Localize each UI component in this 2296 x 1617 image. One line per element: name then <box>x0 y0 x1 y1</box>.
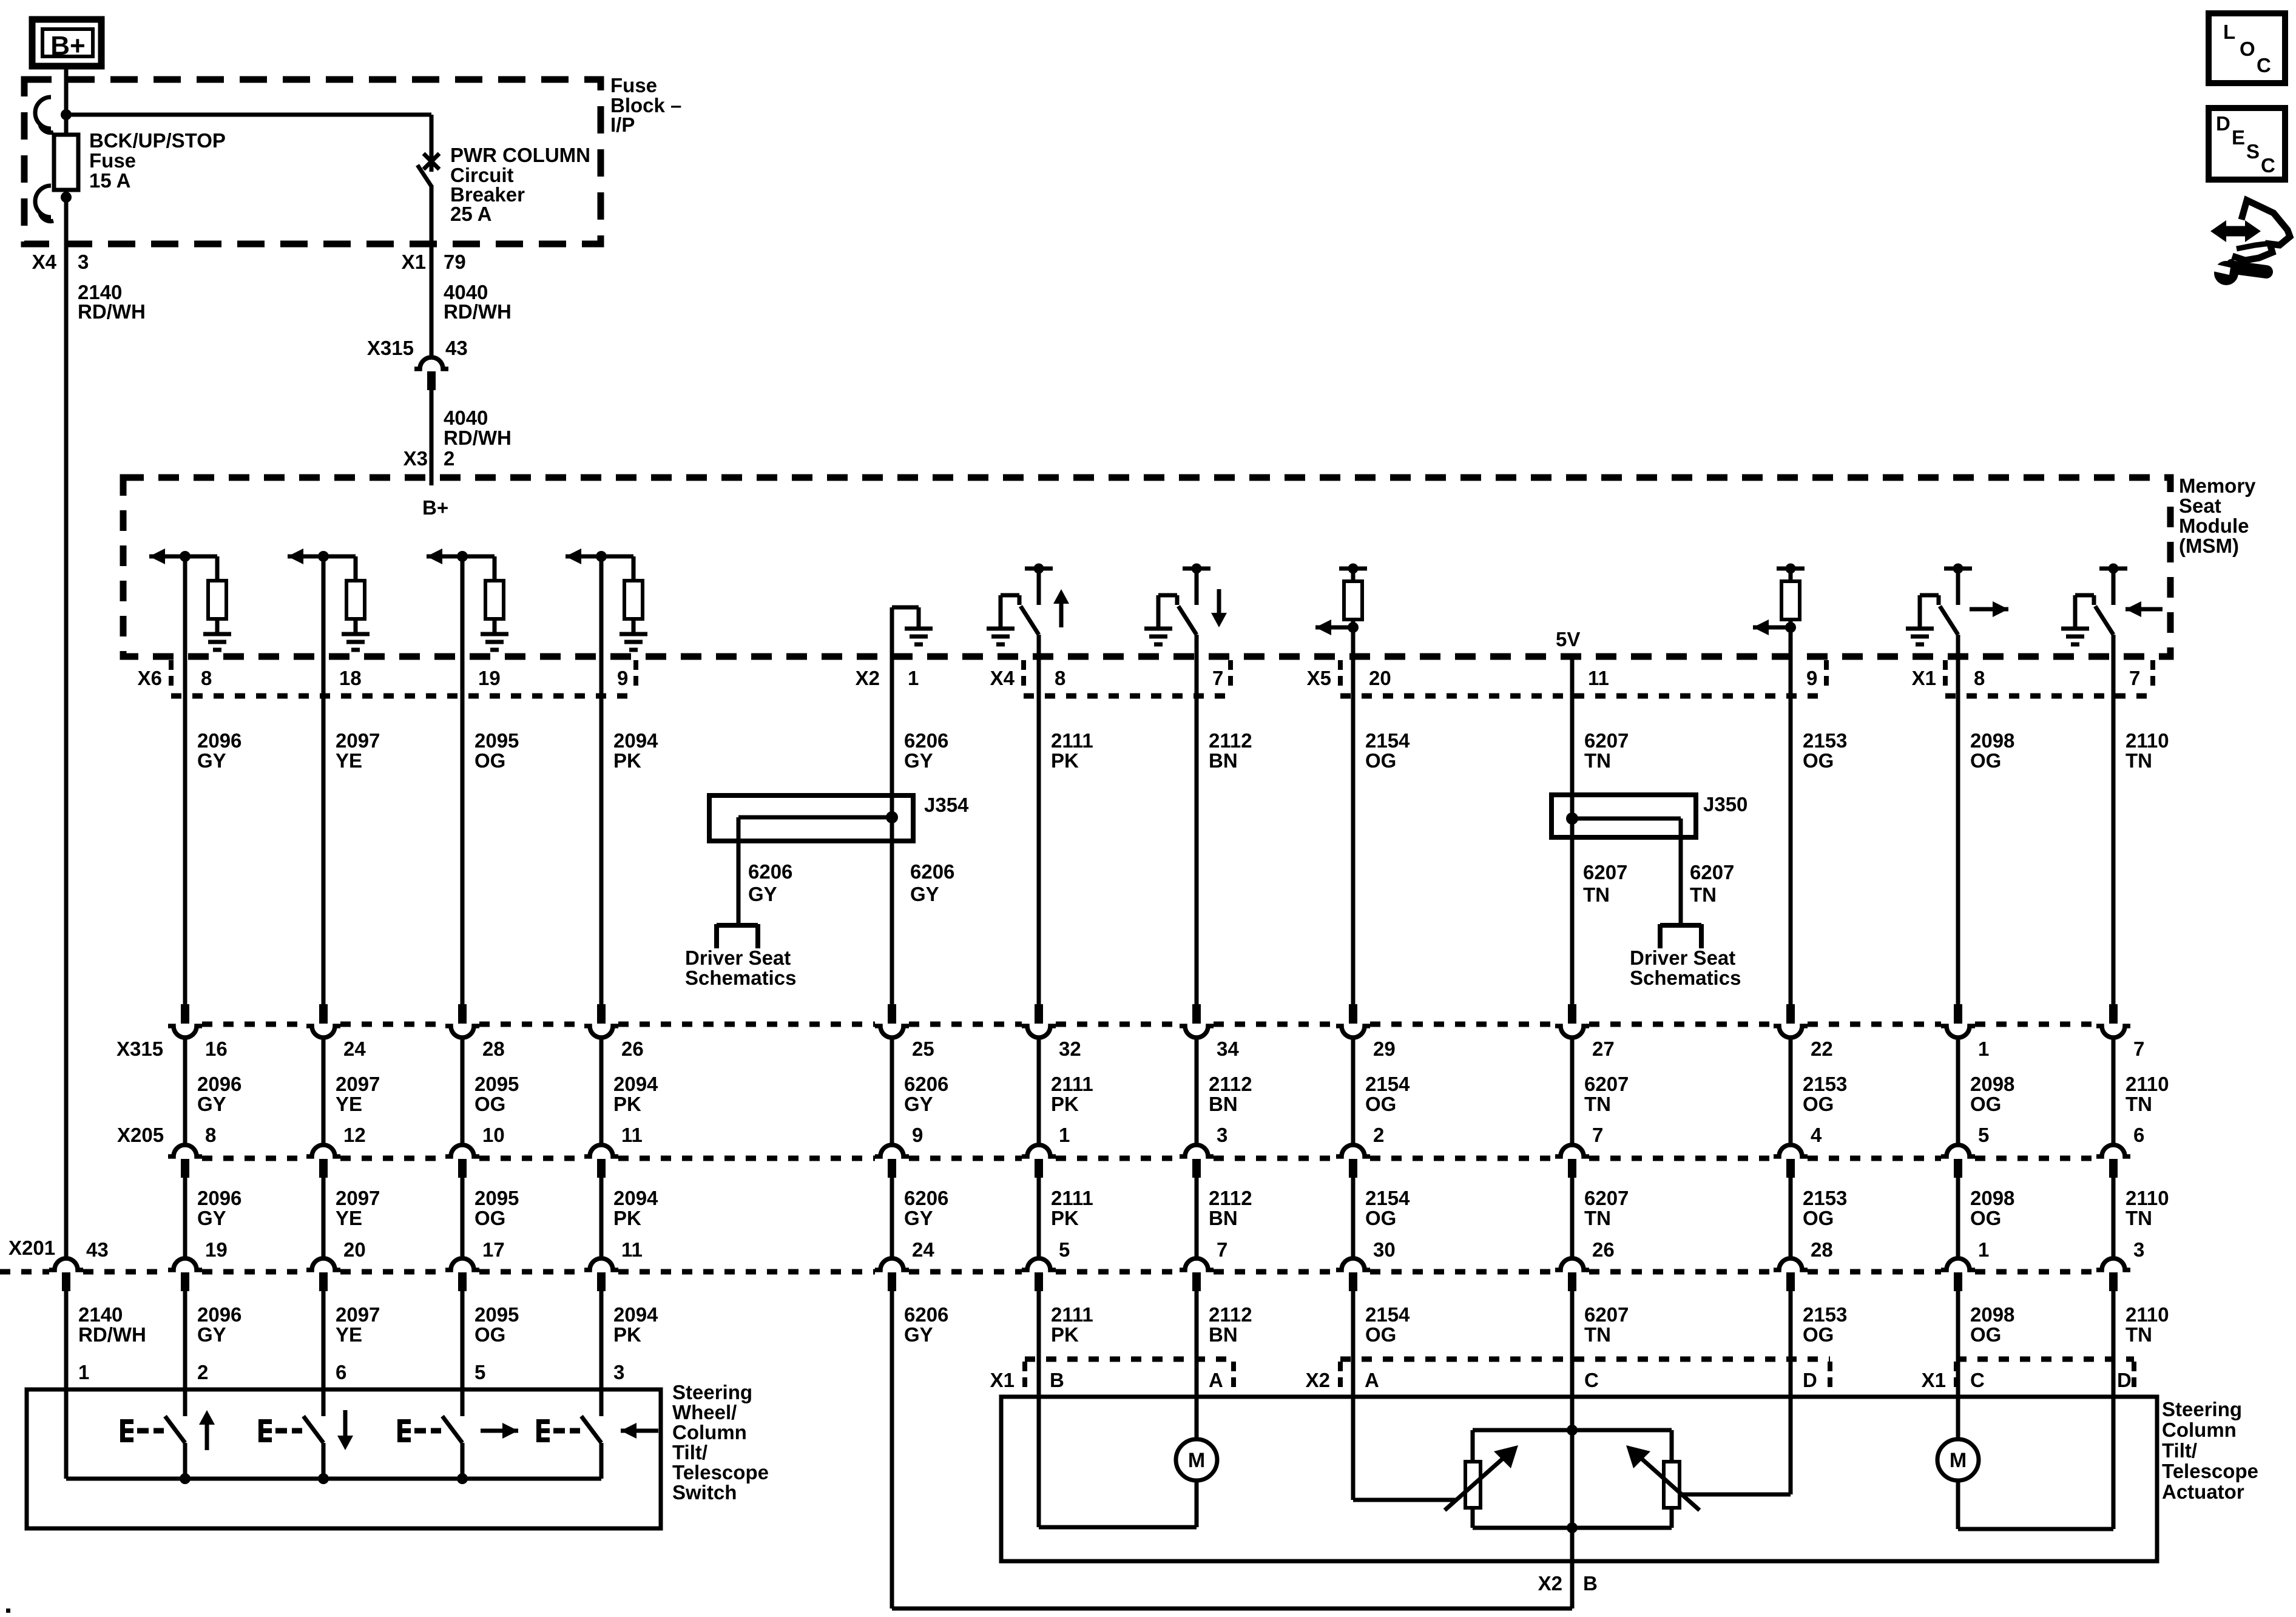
svg-text:10: 10 <box>482 1124 505 1146</box>
svg-text:1: 1 <box>1059 1124 1070 1146</box>
svg-text:2153: 2153 <box>1803 1303 1847 1326</box>
svg-text:8: 8 <box>1055 667 1065 689</box>
svg-text:79: 79 <box>444 251 466 273</box>
svg-text:26: 26 <box>1592 1238 1615 1261</box>
svg-text:D: D <box>2216 112 2230 135</box>
svg-text:2097: 2097 <box>336 1303 380 1326</box>
svg-text:8: 8 <box>201 667 212 689</box>
svg-text:Tilt/: Tilt/ <box>672 1441 707 1463</box>
svg-text:2153: 2153 <box>1803 1187 1847 1209</box>
svg-text:TN: TN <box>1584 1093 1611 1115</box>
svg-text:C: C <box>2261 154 2275 177</box>
svg-text:5: 5 <box>474 1361 485 1383</box>
svg-text:X205: X205 <box>117 1124 164 1146</box>
svg-text:X315: X315 <box>367 337 414 359</box>
svg-text:18: 18 <box>339 667 362 689</box>
svg-text:X5: X5 <box>1307 667 1331 689</box>
svg-text:2096: 2096 <box>197 1303 241 1326</box>
svg-text:O: O <box>2240 38 2255 60</box>
svg-text:2096: 2096 <box>197 1187 241 1209</box>
svg-text:7: 7 <box>1592 1124 1603 1146</box>
svg-text:2112: 2112 <box>1209 1303 1252 1326</box>
svg-text:OG: OG <box>1803 1093 1834 1115</box>
svg-text:RD/WH: RD/WH <box>78 300 146 323</box>
svg-text:GY: GY <box>904 1207 933 1229</box>
svg-text:2098: 2098 <box>1970 1187 2014 1209</box>
svg-text:YE: YE <box>336 1207 362 1229</box>
svg-text:TN: TN <box>2125 749 2152 772</box>
svg-text:PK: PK <box>613 1323 641 1346</box>
svg-text:OG: OG <box>1803 1207 1834 1229</box>
svg-text:2112: 2112 <box>1209 1187 1252 1209</box>
svg-text:3: 3 <box>2133 1238 2144 1261</box>
svg-text:19: 19 <box>205 1238 228 1261</box>
svg-text:GY: GY <box>197 1093 226 1115</box>
svg-text:43: 43 <box>86 1238 109 1261</box>
svg-text:6206: 6206 <box>748 860 792 883</box>
svg-text:X2: X2 <box>1538 1572 1562 1595</box>
svg-text:1: 1 <box>1978 1238 1989 1261</box>
svg-text:9: 9 <box>617 667 628 689</box>
svg-text:Seat: Seat <box>2179 495 2221 517</box>
svg-text:GY: GY <box>904 1093 933 1115</box>
svg-text:PK: PK <box>1051 1323 1079 1346</box>
svg-text:2140: 2140 <box>78 1303 123 1326</box>
svg-text:6206: 6206 <box>910 860 954 883</box>
svg-text:7: 7 <box>2129 667 2140 689</box>
svg-text:J350: J350 <box>1703 793 1747 815</box>
svg-text:M: M <box>1950 1449 1967 1472</box>
svg-text:2095: 2095 <box>474 1303 519 1326</box>
svg-text:Column: Column <box>672 1421 747 1443</box>
svg-text:2110: 2110 <box>2125 1073 2169 1095</box>
svg-text:A: A <box>1365 1369 1379 1391</box>
svg-text:(MSM): (MSM) <box>2179 535 2239 557</box>
svg-text:29: 29 <box>1373 1038 1396 1060</box>
svg-text:8: 8 <box>205 1124 216 1146</box>
svg-text:6206: 6206 <box>904 729 948 752</box>
svg-text:X2: X2 <box>856 667 880 689</box>
svg-text:PK: PK <box>1051 1093 1079 1115</box>
svg-text:5: 5 <box>1978 1124 1989 1146</box>
svg-text:6207: 6207 <box>1584 729 1629 752</box>
svg-text:6206: 6206 <box>904 1187 948 1209</box>
svg-text:B+: B+ <box>422 496 448 519</box>
svg-text:X3: X3 <box>403 447 428 470</box>
svg-text:TN: TN <box>1690 883 1717 906</box>
svg-text:2095: 2095 <box>474 1073 519 1095</box>
svg-text:Column: Column <box>2162 1419 2237 1441</box>
svg-text:X1: X1 <box>1912 667 1936 689</box>
svg-text:PK: PK <box>1051 1207 1079 1229</box>
svg-text:X1: X1 <box>990 1369 1015 1391</box>
svg-text:X1: X1 <box>1922 1369 1946 1391</box>
svg-text:9: 9 <box>912 1124 923 1146</box>
svg-text:Actuator: Actuator <box>2162 1480 2244 1503</box>
svg-text:TN: TN <box>2125 1207 2152 1229</box>
svg-text:15 A: 15 A <box>89 169 130 192</box>
svg-text:2097: 2097 <box>336 1073 380 1095</box>
svg-text:GY: GY <box>904 749 933 772</box>
svg-text:BN: BN <box>1209 1207 1238 1229</box>
svg-text:GY: GY <box>910 883 939 905</box>
svg-text:2154: 2154 <box>1365 1303 1410 1326</box>
svg-text:2094: 2094 <box>613 1073 658 1095</box>
svg-text:2094: 2094 <box>613 1187 658 1209</box>
svg-text:Driver Seat: Driver Seat <box>1630 947 1735 969</box>
svg-text:2097: 2097 <box>336 729 380 752</box>
svg-text:2153: 2153 <box>1803 729 1847 752</box>
svg-text:2111: 2111 <box>1051 1187 1093 1209</box>
svg-text:Tilt/: Tilt/ <box>2162 1439 2197 1462</box>
svg-text:6: 6 <box>336 1361 346 1383</box>
svg-text:I/P: I/P <box>610 113 635 136</box>
svg-text:1: 1 <box>78 1361 89 1383</box>
svg-text:22: 22 <box>1811 1038 1833 1060</box>
svg-text:20: 20 <box>343 1238 366 1261</box>
svg-text:27: 27 <box>1592 1038 1615 1060</box>
svg-text:34: 34 <box>1217 1038 1239 1060</box>
svg-text:7: 7 <box>1217 1238 1227 1261</box>
svg-text:B: B <box>1050 1369 1064 1391</box>
svg-text:2098: 2098 <box>1970 1303 2014 1326</box>
svg-text:TN: TN <box>1584 749 1611 772</box>
svg-text:2: 2 <box>197 1361 208 1383</box>
svg-text:25: 25 <box>912 1038 934 1060</box>
svg-text:2112: 2112 <box>1209 1073 1252 1095</box>
svg-text:C: C <box>2257 54 2271 76</box>
svg-text:OG: OG <box>1365 1093 1396 1115</box>
svg-text:Wheel/: Wheel/ <box>672 1401 737 1423</box>
svg-text:Fuse: Fuse <box>89 149 136 172</box>
svg-text:TN: TN <box>2125 1323 2152 1346</box>
svg-text:2097: 2097 <box>336 1187 380 1209</box>
svg-text:X1: X1 <box>402 251 426 273</box>
svg-text:2094: 2094 <box>613 1303 658 1326</box>
svg-text:D: D <box>2117 1369 2132 1391</box>
svg-text:7: 7 <box>2133 1038 2144 1060</box>
svg-text:X4: X4 <box>990 667 1015 689</box>
svg-text:2110: 2110 <box>2125 1303 2169 1326</box>
svg-text:Module: Module <box>2179 515 2249 537</box>
svg-text:YE: YE <box>336 749 362 772</box>
svg-text:3: 3 <box>1217 1124 1227 1146</box>
svg-text:2094: 2094 <box>613 729 658 752</box>
svg-text:4: 4 <box>1811 1124 1822 1146</box>
svg-text:2110: 2110 <box>2125 1187 2169 1209</box>
svg-text:Memory: Memory <box>2179 474 2256 497</box>
svg-text:2154: 2154 <box>1365 1073 1410 1095</box>
svg-text:Schematics: Schematics <box>685 967 796 989</box>
svg-text:BN: BN <box>1209 1323 1238 1346</box>
svg-text:5V: 5V <box>1556 628 1580 650</box>
svg-text:GY: GY <box>197 1323 226 1346</box>
svg-text:C: C <box>1970 1369 1985 1391</box>
svg-text:2111: 2111 <box>1051 1303 1093 1326</box>
svg-text:2154: 2154 <box>1365 729 1410 752</box>
svg-text:3: 3 <box>78 251 89 273</box>
svg-text:B+: B+ <box>50 31 85 61</box>
svg-text:OG: OG <box>474 749 505 772</box>
svg-text:8: 8 <box>1974 667 1985 689</box>
svg-text:TN: TN <box>2125 1093 2152 1115</box>
svg-text:Schematics: Schematics <box>1630 967 1741 989</box>
svg-text:GY: GY <box>197 749 226 772</box>
svg-text:PK: PK <box>613 1207 641 1229</box>
svg-text:OG: OG <box>1365 1207 1396 1229</box>
svg-text:OG: OG <box>474 1093 505 1115</box>
svg-text:17: 17 <box>482 1238 505 1261</box>
svg-text:C: C <box>1584 1369 1599 1391</box>
svg-text:S: S <box>2246 140 2260 163</box>
svg-text:2153: 2153 <box>1803 1073 1847 1095</box>
svg-text:L: L <box>2223 21 2235 43</box>
svg-text:2111: 2111 <box>1051 729 1093 752</box>
svg-text:16: 16 <box>205 1038 228 1060</box>
svg-text:2112: 2112 <box>1209 729 1252 752</box>
svg-text:6207: 6207 <box>1584 1073 1629 1095</box>
svg-text:28: 28 <box>1811 1238 1833 1261</box>
svg-text:Driver Seat: Driver Seat <box>685 947 791 969</box>
svg-text:7: 7 <box>1212 667 1223 689</box>
svg-text:6207: 6207 <box>1584 1187 1629 1209</box>
svg-text:6207: 6207 <box>1584 1303 1629 1326</box>
svg-text:2111: 2111 <box>1051 1073 1093 1095</box>
svg-text:B: B <box>1583 1572 1598 1595</box>
svg-text:5: 5 <box>1059 1238 1070 1261</box>
svg-text:OG: OG <box>474 1207 505 1229</box>
svg-text:6207: 6207 <box>1690 861 1734 883</box>
svg-text:YE: YE <box>336 1093 362 1115</box>
svg-text:OG: OG <box>1970 1093 2001 1115</box>
svg-text:TN: TN <box>1584 1207 1611 1229</box>
svg-text:GY: GY <box>904 1323 933 1346</box>
svg-text:GY: GY <box>748 883 777 905</box>
svg-text:11: 11 <box>621 1124 643 1146</box>
svg-text:RD/WH: RD/WH <box>78 1323 146 1346</box>
svg-text:3: 3 <box>613 1361 624 1383</box>
svg-text:TN: TN <box>1584 1323 1611 1346</box>
svg-text:YE: YE <box>336 1323 362 1346</box>
svg-text:OG: OG <box>1970 1207 2001 1229</box>
svg-text:19: 19 <box>478 667 501 689</box>
svg-text:2154: 2154 <box>1365 1187 1410 1209</box>
svg-text:30: 30 <box>1373 1238 1396 1261</box>
svg-text:X4: X4 <box>32 251 57 273</box>
svg-text:RD/WH: RD/WH <box>444 427 512 449</box>
svg-text:X315: X315 <box>116 1038 163 1060</box>
svg-text:TN: TN <box>1583 883 1610 906</box>
svg-text:Steering: Steering <box>2162 1398 2242 1420</box>
svg-text:BN: BN <box>1209 1093 1238 1115</box>
svg-text:Switch: Switch <box>672 1481 737 1504</box>
svg-text:OG: OG <box>1970 1323 2001 1346</box>
svg-text:E: E <box>2232 126 2245 149</box>
svg-text:OG: OG <box>1970 749 2001 772</box>
svg-text:9: 9 <box>1806 667 1817 689</box>
svg-text:12: 12 <box>343 1124 366 1146</box>
svg-text:11: 11 <box>1588 667 1609 689</box>
svg-text:X201: X201 <box>8 1237 55 1259</box>
svg-text:1: 1 <box>1978 1038 1989 1060</box>
svg-text:PK: PK <box>613 749 641 772</box>
svg-text:25 A: 25 A <box>450 203 491 225</box>
svg-text:Telescope: Telescope <box>2162 1460 2258 1482</box>
svg-text:Fuse: Fuse <box>610 74 657 96</box>
svg-text:BCK/UP/STOP: BCK/UP/STOP <box>89 129 226 152</box>
svg-text:BN: BN <box>1209 749 1238 772</box>
svg-text:OG: OG <box>1803 749 1834 772</box>
svg-text:6206: 6206 <box>904 1303 948 1326</box>
svg-text:Telescope: Telescope <box>672 1461 769 1484</box>
svg-text:X6: X6 <box>138 667 162 689</box>
svg-text:26: 26 <box>621 1038 644 1060</box>
svg-text:D: D <box>1803 1369 1817 1391</box>
svg-text:24: 24 <box>912 1238 934 1261</box>
svg-text:OG: OG <box>1365 1323 1396 1346</box>
svg-text:2096: 2096 <box>197 729 241 752</box>
svg-text:24: 24 <box>343 1038 366 1060</box>
svg-text:2: 2 <box>1373 1124 1384 1146</box>
svg-text:6207: 6207 <box>1583 861 1627 883</box>
svg-text:M: M <box>1188 1449 1205 1472</box>
svg-text:PK: PK <box>613 1093 641 1115</box>
svg-text:6206: 6206 <box>904 1073 948 1095</box>
svg-text:2096: 2096 <box>197 1073 241 1095</box>
svg-text:2110: 2110 <box>2125 729 2169 752</box>
svg-text:RD/WH: RD/WH <box>444 300 512 323</box>
svg-text:OG: OG <box>474 1323 505 1346</box>
svg-text:GY: GY <box>197 1207 226 1229</box>
svg-text:11: 11 <box>621 1238 643 1261</box>
svg-text:2098: 2098 <box>1970 1073 2014 1095</box>
svg-text:Steering: Steering <box>672 1381 752 1403</box>
svg-text:20: 20 <box>1369 667 1391 689</box>
svg-text:1: 1 <box>908 667 919 689</box>
svg-text:43: 43 <box>445 337 468 359</box>
svg-text:2095: 2095 <box>474 729 519 752</box>
svg-text:2095: 2095 <box>474 1187 519 1209</box>
svg-text:J354: J354 <box>924 794 969 816</box>
svg-text:28: 28 <box>482 1038 505 1060</box>
svg-text:4040: 4040 <box>444 407 488 429</box>
svg-text:X2: X2 <box>1306 1369 1330 1391</box>
svg-text:PK: PK <box>1051 749 1079 772</box>
svg-text:2098: 2098 <box>1970 729 2014 752</box>
svg-text:6: 6 <box>2133 1124 2144 1146</box>
svg-text:2: 2 <box>444 447 454 470</box>
svg-text:OG: OG <box>1365 749 1396 772</box>
svg-text:OG: OG <box>1803 1323 1834 1346</box>
svg-text:PWR COLUMN: PWR COLUMN <box>450 144 590 166</box>
svg-text:A: A <box>1209 1369 1223 1391</box>
svg-text:32: 32 <box>1059 1038 1081 1060</box>
